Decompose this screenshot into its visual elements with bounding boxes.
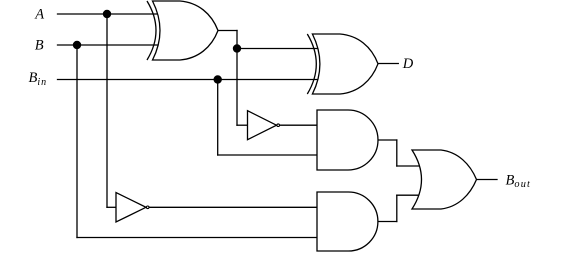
wire A branch to inverter U4 <box>107 206 117 208</box>
wire B branch to AND2 <box>77 237 318 239</box>
wire XOR1 output vertical <box>236 31 238 126</box>
wire AND1 output vertical <box>396 140 398 166</box>
wire XOR2 output D <box>378 63 399 65</box>
wire Bin branch vertical <box>217 80 219 156</box>
wire input Bin to XOR2 <box>58 79 319 81</box>
wire node to XOR2 input <box>237 48 318 50</box>
wire OR output Bout <box>477 179 498 181</box>
wire AND2 output stub <box>378 221 397 223</box>
wire Bin branch to AND1 <box>218 154 318 156</box>
inverter U4 triangle <box>116 193 146 223</box>
wire input A <box>58 13 161 15</box>
wire to OR input 1 <box>397 165 424 167</box>
wire A branch vertical <box>106 14 108 207</box>
and gate U5 body <box>317 110 378 170</box>
and gate U6 body <box>317 192 378 251</box>
svg-text:D: D <box>402 56 414 72</box>
junction dot on A <box>103 10 111 18</box>
wire inverter U4 output to AND2 <box>150 206 318 208</box>
junction dot on Bin <box>214 75 222 83</box>
wire inverter U3 output to AND1 <box>280 124 318 126</box>
svg-text:A: A <box>34 6 44 22</box>
inverter U3 bubble <box>277 124 280 127</box>
wire AND2 output vertical <box>396 195 398 221</box>
xor gate U2 body <box>312 34 378 94</box>
inverter U4 bubble <box>146 206 149 209</box>
inverter U3 triangle <box>248 111 277 140</box>
wire AND1 output stub <box>378 139 397 141</box>
or gate U7 body <box>412 150 477 209</box>
junction dot on B <box>73 41 81 49</box>
wire XOR1 output stub <box>218 30 238 32</box>
wire input B <box>58 44 161 46</box>
wire to OR input 2 <box>397 194 424 196</box>
xor gate U1 input arc <box>147 1 156 60</box>
xor gate U1 body <box>153 1 219 60</box>
xor gate U2 input arc <box>307 34 316 94</box>
junction dot XOR1 output node <box>233 44 241 52</box>
wire B branch vertical <box>76 45 78 238</box>
wire to inverter U3 input <box>237 124 248 126</box>
svg-text:B: B <box>35 37 44 53</box>
